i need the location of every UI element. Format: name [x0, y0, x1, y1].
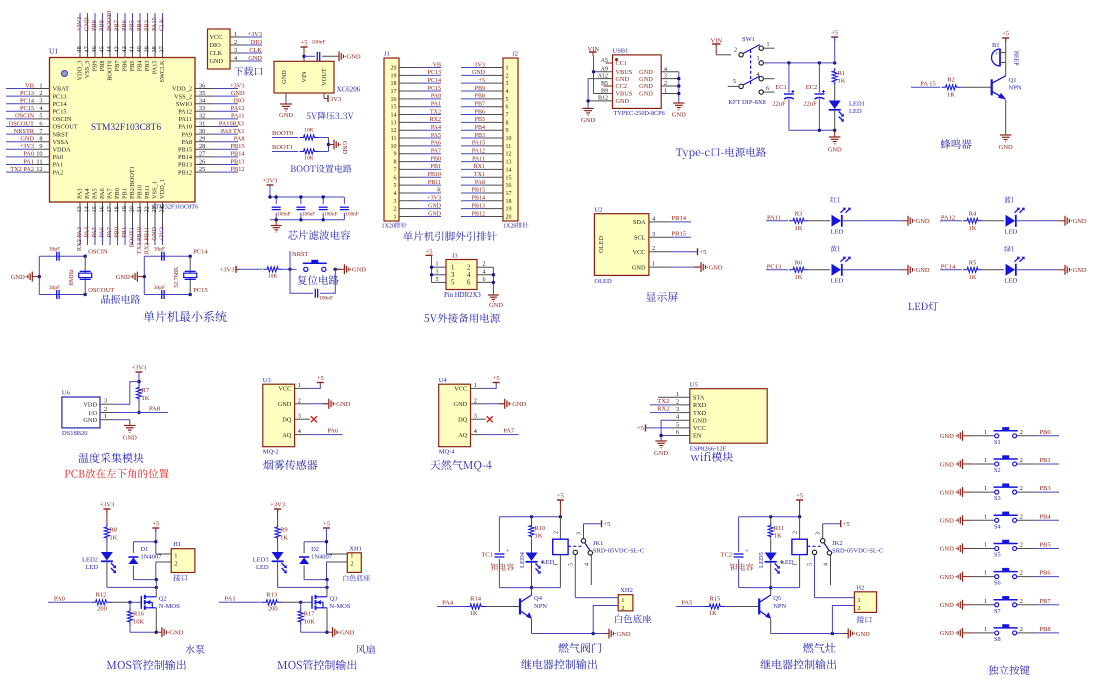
svg-text:100nF: 100nF [302, 212, 315, 218]
svg-text:NPN: NPN [773, 603, 786, 610]
svg-text:LED: LED [849, 108, 862, 115]
svg-text:1K: 1K [470, 610, 478, 617]
svg-text:2: 2 [39, 90, 42, 97]
svg-text:PC14: PC14 [193, 249, 208, 256]
svg-text:3: 3 [39, 98, 42, 105]
power +5 [301, 40, 308, 62]
svg-text:PB9: PB9 [91, 20, 98, 31]
svg-text:PB14: PB14 [672, 215, 687, 222]
svg-text:PA6: PA6 [431, 141, 441, 147]
svg-text:B9: B9 [601, 88, 608, 94]
relay contacts JK2 [808, 524, 884, 598]
USB1 left pin B9 VBUS [594, 88, 633, 97]
OLED pin 3 SCL [634, 231, 670, 242]
svg-text:PA5: PA5 [92, 188, 99, 199]
U5 pin 2 RXD [672, 398, 707, 409]
svg-text:PA11: PA11 [472, 156, 485, 162]
power +5 XH1 [323, 521, 330, 555]
U1 left pin 12 PA2 net TX2 PA2 [6, 166, 63, 176]
J2 pin 2 net GND [461, 70, 509, 79]
svg-text:B1: B1 [992, 42, 1000, 49]
svg-text:A9: A9 [601, 67, 608, 73]
svg-text:R6: R6 [795, 259, 803, 266]
svg-text:+3V3: +3V3 [220, 267, 235, 274]
svg-text:1K: 1K [795, 225, 803, 232]
ground wifi [654, 441, 668, 457]
svg-text:R5: R5 [969, 259, 977, 266]
svg-text:GND: GND [512, 401, 526, 408]
relay coil JK1 [553, 517, 583, 588]
J1 pin 4 net R [394, 188, 442, 197]
svg-text:GND: GND [1073, 218, 1087, 225]
J2 pin 6 net PB7 [461, 102, 509, 111]
wire relay top rail [499, 515, 562, 588]
U1 bottom pin 19 PB1 net PB1 [121, 188, 129, 245]
U1 right pin 28 PB15 net PB15 [178, 143, 245, 153]
svg-text:2: 2 [664, 81, 667, 87]
USB1 left pin B5 CC2 [601, 81, 627, 90]
svg-text:+3V3: +3V3 [248, 31, 262, 38]
svg-text:PA5: PA5 [91, 227, 98, 238]
power +3V3 reset [220, 266, 262, 274]
svg-text:8: 8 [39, 136, 42, 143]
U1 top pin 38 PA15 net PA15 [151, 13, 159, 74]
U1 left pin 6 OSCOUT net OSCOUT [6, 120, 78, 130]
svg-text:PA5: PA5 [431, 133, 441, 139]
J2 pin 17 net PB15 [461, 188, 512, 197]
USB1 right pin 3 GND [639, 74, 679, 83]
svg-text:Pin HDR2X3: Pin HDR2X3 [444, 292, 481, 299]
svg-text:PB7: PB7 [1039, 598, 1051, 605]
J2 pin 4 net PB9 [461, 86, 509, 95]
svg-text:Q2: Q2 [159, 596, 167, 603]
crystal 32.768K [173, 256, 197, 294]
svg-text:GND: GND [581, 117, 595, 124]
svg-text:S5: S5 [994, 551, 1001, 558]
svg-text:PA7: PA7 [431, 149, 441, 155]
net label PB7 [1036, 598, 1059, 605]
svg-text:VDD_3: VDD_3 [77, 61, 84, 81]
ground S7 [940, 600, 972, 610]
net label PA5 [676, 600, 704, 607]
svg-text:NRST: NRST [53, 131, 69, 138]
U5 pin 1 STA [672, 391, 705, 402]
ground S1 [940, 431, 972, 441]
svg-text:7: 7 [394, 167, 397, 173]
J2 pin 15 net TX1 [461, 172, 512, 181]
svg-text:PA11: PA11 [231, 113, 245, 120]
svg-text:GND: GND [639, 91, 653, 98]
svg-text:JK1: JK1 [593, 540, 603, 547]
svg-text:PA0: PA0 [54, 596, 65, 603]
J1 pin 10 net PA6 [391, 141, 442, 150]
svg-text:1X20: 1X20 [503, 224, 516, 230]
svg-text:100nF: 100nF [277, 212, 290, 218]
svg-text:2: 2 [1020, 598, 1023, 605]
switch S8 [972, 624, 1036, 643]
U1 bottom pin 15 PA5 net PA5 [91, 188, 99, 245]
svg-text:8MHz: 8MHz [68, 269, 75, 285]
svg-text:41: 41 [129, 46, 136, 52]
svg-text:PB1: PB1 [1039, 457, 1050, 464]
svg-text:47: 47 [84, 46, 91, 52]
net label PB8 [1036, 626, 1059, 633]
svg-text:OSCIN: OSCIN [15, 113, 34, 120]
svg-text:+5: +5 [152, 521, 159, 528]
svg-text:3: 3 [436, 269, 439, 275]
net label PB4 [1036, 513, 1059, 520]
svg-text:PA0: PA0 [23, 151, 34, 158]
J1 pin 15 net PA1 [391, 102, 442, 111]
U1 right pin 32 PA11 net PA11 [178, 113, 244, 123]
svg-text:30pF: 30pF [154, 247, 165, 253]
U1 right pin 27 PB14 net PB14 [178, 151, 245, 161]
svg-text:B12: B12 [598, 96, 608, 102]
svg-text:GND: GND [116, 274, 130, 281]
svg-text:1: 1 [350, 553, 353, 560]
svg-text:+5: +5 [637, 425, 644, 432]
svg-text:PB12: PB12 [178, 169, 192, 176]
download port pin 2 DIO net DIO [210, 39, 263, 49]
svg-text:200: 200 [268, 606, 278, 613]
svg-text:1: 1 [451, 265, 454, 272]
svg-text:19: 19 [506, 207, 512, 213]
svg-text:PA1: PA1 [23, 158, 34, 165]
wire diode H pin2 to drain node [133, 578, 158, 588]
svg-text:VBUS: VBUS [616, 91, 633, 98]
transistor Q3 N-MOS [312, 587, 351, 632]
svg-text:ESP8266-12F: ESP8266-12F [690, 446, 727, 453]
svg-text:1: 1 [984, 598, 987, 605]
U5 pin 5 VCC [672, 421, 706, 432]
button S1 circuit [940, 427, 1059, 446]
svg-text:NPN: NPN [534, 603, 547, 610]
svg-text:R: R [437, 188, 441, 194]
connector XH1 box [327, 545, 371, 581]
svg-text:1: 1 [984, 429, 987, 436]
net label PC13 [766, 263, 788, 270]
svg-text:PB3: PB3 [144, 20, 151, 31]
svg-text:1: 1 [174, 553, 177, 560]
U1 bottom pin 23 VSS_1 net GND [151, 181, 159, 245]
svg-text:R10: R10 [535, 525, 546, 532]
capacitor EC2 22uF [803, 63, 825, 130]
svg-text:A5: A5 [601, 58, 608, 64]
svg-text:5: 5 [676, 421, 679, 428]
svg-text:35: 35 [199, 90, 205, 97]
svg-text:PC13: PC13 [428, 70, 441, 76]
svg-text:GND: GND [709, 264, 723, 271]
svg-text:EC2: EC2 [806, 84, 818, 91]
svg-text:+5: +5 [831, 30, 838, 37]
svg-text:4: 4 [664, 67, 667, 73]
svg-text:RX1: RX1 [474, 164, 485, 170]
power +5 J3 [426, 249, 434, 283]
svg-text:+3V3: +3V3 [20, 143, 34, 150]
J1 pin 3 net +3V3 [394, 196, 442, 205]
svg-text:PB13: PB13 [178, 162, 192, 169]
capacitor 100nF filter 4 [340, 197, 359, 220]
U1 right pin 36 VDD_2 net +3V3 [172, 82, 244, 92]
ground PA12 LED [1058, 216, 1087, 226]
svg-text:PA4: PA4 [84, 188, 91, 199]
svg-text:TXD: TXD [693, 410, 706, 417]
svg-text:PB8: PB8 [99, 20, 106, 31]
svg-text:2: 2 [506, 73, 509, 79]
wire relay bottom rail [739, 588, 843, 636]
J3 right pin 6 [467, 277, 493, 287]
svg-text:PA10RX1: PA10RX1 [219, 120, 245, 127]
svg-text:PA15: PA15 [151, 17, 158, 31]
svg-text:+5: +5 [317, 375, 324, 382]
resistor R14 1K base [465, 596, 520, 618]
J2 pin 20 net PB12 [461, 211, 512, 220]
svg-text:R14: R14 [470, 596, 482, 603]
ground S6 [940, 572, 972, 582]
svg-text:LED: LED [1005, 277, 1018, 284]
svg-text:1K: 1K [838, 78, 846, 85]
button S4 circuit [940, 512, 1059, 531]
svg-text:PA4: PA4 [442, 600, 454, 607]
U1 top pin 43 PB7 net PB7 [114, 13, 122, 71]
svg-text:+5: +5 [426, 249, 433, 256]
net label PB3 [1036, 485, 1059, 492]
svg-text:11: 11 [506, 144, 512, 150]
svg-text:1: 1 [676, 391, 679, 398]
svg-text:3V3: 3V3 [475, 62, 485, 68]
svg-text:OLED: OLED [598, 236, 605, 253]
svg-text:U5: U5 [690, 381, 698, 388]
svg-text:3: 3 [664, 74, 667, 80]
svg-text:BOOT0: BOOT0 [272, 130, 293, 137]
svg-text:10K: 10K [304, 156, 314, 162]
svg-text:8: 8 [394, 160, 397, 166]
svg-text:10K: 10K [304, 619, 316, 626]
svg-text:+5: +5 [700, 249, 707, 256]
svg-text:VOUT: VOUT [321, 68, 328, 86]
svg-text:1: 1 [984, 570, 987, 577]
crystal circuit wire frame [38, 255, 87, 297]
power +3V3 R9 [270, 502, 285, 525]
U1 right pin 29 PA8 net PA8 [181, 136, 244, 146]
svg-text:18: 18 [506, 199, 512, 205]
button S5 circuit [940, 540, 1059, 559]
svg-text:1K: 1K [774, 533, 782, 540]
svg-text:2: 2 [1020, 541, 1023, 548]
svg-text:PB4: PB4 [137, 60, 144, 72]
capacitor 30pF bottom [49, 285, 60, 299]
title temperature module [78, 453, 143, 463]
J1 pin 18 net PC14 [391, 78, 442, 87]
svg-text:GND: GND [151, 227, 158, 241]
svg-text:PB15: PB15 [178, 147, 192, 154]
svg-text:2: 2 [174, 561, 177, 568]
wire GND pins left [586, 79, 589, 109]
svg-text:PB8: PB8 [1039, 626, 1050, 633]
svg-text:3: 3 [816, 532, 822, 535]
net label PA1 [219, 596, 261, 603]
wire bottom rail EC caps [789, 129, 837, 132]
svg-text:+3V3: +3V3 [76, 17, 83, 31]
svg-text:PB7: PB7 [114, 61, 121, 72]
svg-text:17: 17 [506, 191, 512, 197]
resistor R5 1K [963, 259, 1004, 281]
label pump/fan [185, 645, 204, 654]
svg-text:29: 29 [199, 136, 205, 143]
svg-text:PC13: PC13 [20, 90, 34, 97]
title relay control output [521, 659, 597, 669]
U1 left pin 1 VBAT net VB [6, 82, 69, 92]
resistor 10K BOOT1 [300, 149, 329, 162]
svg-text:GND: GND [940, 433, 954, 440]
ground MOS block [332, 627, 334, 637]
svg-text:PA1: PA1 [431, 102, 441, 108]
svg-text:4: 4 [394, 191, 397, 197]
transistor Q4 NPN [520, 586, 547, 634]
svg-text:GND: GND [336, 401, 350, 408]
resistor R15 1K base [704, 596, 759, 618]
ground S5 [940, 543, 972, 553]
wire switch pin3 to caps [764, 61, 837, 64]
svg-text:PB4: PB4 [475, 125, 485, 131]
ground right of cap [338, 51, 340, 61]
svg-text:PB14: PB14 [472, 196, 485, 202]
svg-text:PB0: PB0 [114, 227, 121, 238]
svg-text:PB0: PB0 [431, 156, 441, 162]
power +5 relay [557, 493, 564, 517]
DS18B20 U6 body [62, 390, 100, 438]
power +3V3 R8 [99, 502, 114, 525]
svg-text:5: 5 [568, 563, 574, 566]
label load [558, 643, 601, 653]
svg-text:5: 5 [808, 563, 814, 566]
svg-text:VSSA: VSSA [53, 139, 70, 146]
svg-text:LED: LED [1005, 228, 1018, 235]
U1 bottom pin 20 PB2/BOOT1 net BOOT1 [129, 166, 137, 247]
svg-text:1: 1 [984, 457, 987, 464]
svg-text:DQ: DQ [458, 416, 468, 423]
svg-text:GND: GND [616, 76, 630, 83]
svg-text:KFT DIP-8X8: KFT DIP-8X8 [728, 99, 766, 106]
svg-text:3: 3 [474, 413, 477, 420]
svg-text:2: 2 [234, 39, 237, 46]
svg-text:VSS_3: VSS_3 [84, 61, 91, 79]
svg-text:PB5: PB5 [129, 61, 136, 72]
resistor 10K reset [263, 267, 290, 280]
capacitor 100nF input [304, 40, 339, 61]
U1 right pin 35 VSS_2 net GND [174, 90, 245, 100]
U6 pin 2 IO wire to PA8 [100, 406, 168, 413]
svg-text:36: 36 [199, 82, 205, 89]
svg-text:STM32F103C8T6: STM32F103C8T6 [91, 123, 161, 133]
svg-text:13: 13 [391, 120, 397, 126]
svg-text:18: 18 [391, 81, 397, 87]
U1 top pin 39 PB3 net PB3 [144, 13, 152, 71]
svg-text:VDD_2: VDD_2 [172, 86, 192, 93]
U1 top pin 44 BOOT0 net BOOT0 [106, 11, 114, 81]
resistor R11 1K relay [768, 517, 784, 553]
title BOOT setting circuit [291, 164, 352, 172]
capacitor 100nF filter 2 [296, 195, 315, 221]
svg-text:34: 34 [199, 98, 206, 105]
ground S8 [940, 628, 972, 638]
wire diode H pin2 to drain node [304, 578, 329, 588]
svg-text:GND: GND [940, 489, 954, 496]
svg-text:NRSTR: NRSTR [14, 128, 35, 135]
svg-text:B5: B5 [601, 81, 608, 87]
svg-text:H2: H2 [856, 584, 864, 591]
switch S4 [972, 512, 1036, 531]
svg-text:2: 2 [652, 245, 655, 252]
svg-text:1N4007: 1N4007 [140, 554, 162, 561]
diode D1 1N4007 [128, 542, 162, 580]
svg-text:GND: GND [169, 630, 183, 637]
wire U5 STA stub [658, 396, 672, 398]
svg-text:R1: R1 [838, 70, 846, 77]
svg-text:3: 3 [394, 199, 397, 205]
OLED pin 1 GND [632, 261, 670, 272]
OLED pin 2 VCC [633, 245, 670, 256]
title chip filter caps [288, 230, 350, 240]
svg-text:1K: 1K [969, 225, 977, 232]
svg-text:PA 15: PA 15 [920, 81, 935, 88]
svg-text:R7: R7 [142, 387, 150, 394]
svg-text:+3V3: +3V3 [270, 502, 285, 509]
svg-text:USB1: USB1 [613, 48, 629, 55]
svg-text:46: 46 [91, 46, 98, 52]
svg-text:+3V3: +3V3 [99, 502, 114, 509]
U1 left pin 4 PC15 net PC15 [6, 105, 67, 115]
title 5V backup power [424, 313, 500, 323]
buzzer B1 BEEP [992, 42, 1019, 66]
svg-text:GND: GND [940, 574, 954, 581]
svg-text:GND: GND [210, 58, 224, 65]
svg-text:OSCOUT: OSCOUT [53, 124, 78, 131]
svg-text:3: 3 [298, 413, 301, 420]
svg-text:SRD-05VDC-SL-C: SRD-05VDC-SL-C [832, 548, 883, 555]
header J2 1X20 box [503, 51, 528, 230]
J2 pin 14 net RX1 [461, 164, 512, 173]
svg-text:GND: GND [472, 70, 486, 76]
svg-text:PA7: PA7 [106, 227, 113, 238]
svg-text:PC13: PC13 [53, 93, 67, 100]
svg-text:GND: GND [341, 141, 347, 155]
svg-text:100nF: 100nF [345, 212, 358, 218]
capacitor 30pF top [154, 247, 165, 261]
switch S1 [972, 427, 1036, 446]
svg-text:39: 39 [144, 46, 151, 52]
ground J3 [488, 267, 503, 309]
J1 pin 8 net PB0 [394, 156, 442, 165]
J1 pin 1 net GND [394, 211, 442, 220]
crystal circuit wire frame [143, 255, 192, 297]
svg-text:+5: +5 [323, 521, 330, 528]
switch SW1 KFT DIP-8X8 [728, 36, 775, 106]
svg-text:OSCIN: OSCIN [88, 249, 108, 256]
svg-text:R3: R3 [795, 210, 803, 217]
ground PC14 LED [1058, 265, 1087, 275]
switch S5 [972, 540, 1036, 559]
J1 pin 20 net VB [391, 62, 442, 71]
svg-text:TYPEC-250D-8CP6: TYPEC-250D-8CP6 [614, 110, 665, 117]
svg-text:PA0: PA0 [431, 94, 441, 100]
svg-text:TX2 PA2: TX2 PA2 [10, 166, 34, 173]
svg-text:22uF: 22uF [772, 101, 786, 108]
net label PA12 [940, 214, 962, 221]
ground [116, 272, 145, 282]
svg-text:2: 2 [676, 398, 679, 405]
MCU U1 STM32F103C8T6 body [49, 47, 198, 211]
